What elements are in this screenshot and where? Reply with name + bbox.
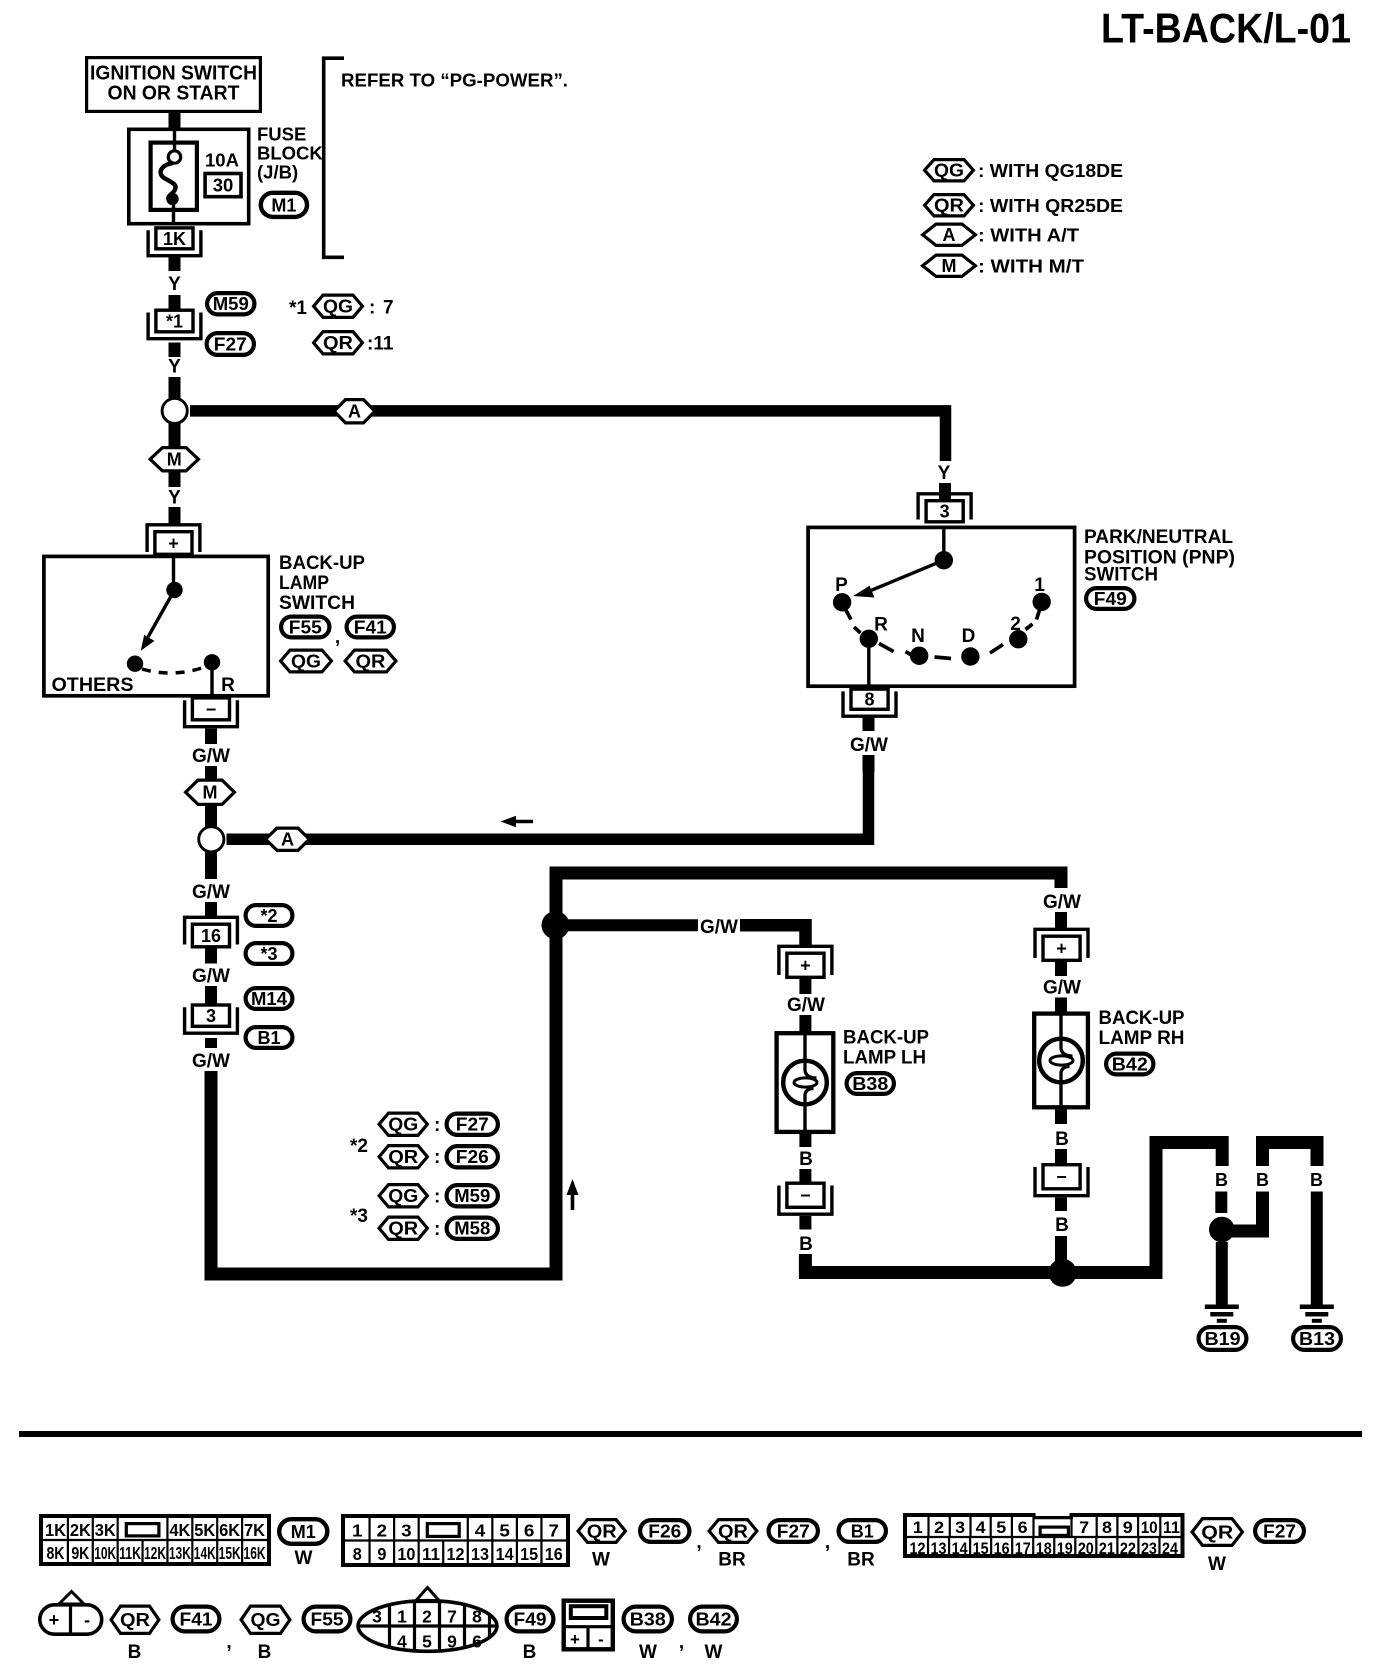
svg-text:QR: QR xyxy=(718,1522,748,1542)
connector F49 oval label xyxy=(1086,588,1134,609)
svg-text:F26: F26 xyxy=(456,1147,489,1167)
svg-text:BACK-UP: BACK-UP xyxy=(1099,1008,1185,1029)
svg-text:*2: *2 xyxy=(350,1136,368,1157)
wire label Y xyxy=(168,274,181,295)
wire stub below switch minus, label G/W xyxy=(205,729,217,745)
connector code A hexagon on return wire xyxy=(266,828,310,850)
svg-text:7K: 7K xyxy=(244,1520,265,1540)
svg-text:F55: F55 xyxy=(311,1610,344,1630)
svg-text:QR: QR xyxy=(323,333,353,353)
svg-text:: WITH QR25DE: : WITH QR25DE xyxy=(978,195,1123,216)
wire stub, label B, to bottom bus LH xyxy=(799,1216,813,1255)
wire label G/W below pin 8 xyxy=(850,717,888,756)
svg-text:8: 8 xyxy=(1102,1518,1112,1537)
connector pin 8 of PNP switch xyxy=(843,689,896,716)
svg-text:G/W: G/W xyxy=(1043,978,1081,999)
wire ignition to fuse block xyxy=(169,113,181,128)
footer F49 oval label, color B xyxy=(507,1607,554,1663)
svg-text:30: 30 xyxy=(213,175,234,196)
ground wire segment B19 branch xyxy=(1215,1170,1228,1213)
connector M59 oval xyxy=(207,293,254,314)
QG hexagon under F55 xyxy=(281,650,332,672)
svg-text:,: , xyxy=(335,627,340,648)
wire stub to M hexagon xyxy=(205,766,217,779)
svg-text:3: 3 xyxy=(955,1518,965,1537)
svg-text:3: 3 xyxy=(206,1006,216,1026)
svg-text:*1: *1 xyxy=(289,298,307,319)
svg-text:REFER TO “PG-POWER”.: REFER TO “PG-POWER”. xyxy=(341,70,568,91)
svg-text:W: W xyxy=(705,1642,723,1663)
svg-text::: : xyxy=(434,1219,440,1240)
svg-text:*3: *3 xyxy=(350,1206,368,1227)
svg-text:W: W xyxy=(1208,1554,1226,1575)
svg-text:7: 7 xyxy=(1079,1518,1089,1537)
wire label G/W left column xyxy=(192,882,230,903)
svg-text:: WITH M/T: : WITH M/T xyxy=(978,256,1085,277)
svg-text:+: + xyxy=(1056,939,1067,959)
footer connector F49 oval grid xyxy=(358,1588,497,1652)
back-up lamp RH bulb B42 xyxy=(1034,1014,1088,1108)
svg-text:B: B xyxy=(523,1642,537,1663)
PNP position labels P R N D 2 1 xyxy=(835,575,1045,647)
footer QR hexagon 2, color BR xyxy=(709,1520,757,1571)
fuse 10A 30 xyxy=(151,129,197,225)
connector pin 1K xyxy=(148,228,201,256)
wire label G/W xyxy=(192,746,230,767)
connector pin - of back-up lamp switch xyxy=(185,698,238,727)
connector pin - below lamp LH xyxy=(779,1183,832,1214)
svg-text:13: 13 xyxy=(471,1544,489,1564)
svg-text:−: − xyxy=(800,1186,811,1206)
footer F26 oval xyxy=(640,1520,702,1553)
svg-text:16: 16 xyxy=(994,1539,1010,1558)
svg-text:1: 1 xyxy=(352,1521,363,1541)
svg-text:2K: 2K xyxy=(70,1520,91,1540)
footer B1 oval, color BR xyxy=(839,1520,886,1570)
wire A/T branch to PNP pin 3 xyxy=(190,411,946,461)
svg-text:G/W: G/W xyxy=(1043,892,1081,913)
footer F27 oval xyxy=(769,1520,831,1553)
svg-text:G/W: G/W xyxy=(850,735,888,756)
footer B38 oval, color W xyxy=(624,1607,685,1663)
back-up lamp LH bulb B38 xyxy=(777,1033,834,1132)
svg-text:18: 18 xyxy=(1036,1539,1052,1558)
svg-text:19: 19 xyxy=(1057,1539,1073,1558)
svg-text:3: 3 xyxy=(372,1607,382,1627)
svg-text:LT-BACK/L-01: LT-BACK/L-01 xyxy=(1101,4,1351,51)
junction splice node top xyxy=(162,398,187,423)
svg-text:24: 24 xyxy=(1162,1539,1178,1558)
svg-text:-: - xyxy=(598,1630,604,1649)
svg-text:14: 14 xyxy=(496,1544,514,1564)
svg-text:,: , xyxy=(825,1532,830,1553)
svg-text:Y: Y xyxy=(168,274,181,295)
svg-text:F27: F27 xyxy=(1263,1522,1296,1542)
svg-text:13K: 13K xyxy=(169,1543,191,1563)
svg-text:B13: B13 xyxy=(1299,1329,1335,1349)
svg-text:QG: QG xyxy=(291,652,321,672)
park/neutral position switch box F49 xyxy=(808,527,1075,686)
svg-text:QR: QR xyxy=(934,196,964,216)
legend M: WITH M/T xyxy=(923,255,1085,276)
svg-text:B: B xyxy=(1256,1170,1269,1190)
svg-text:21: 21 xyxy=(1099,1539,1115,1558)
svg-text:FUSE: FUSE xyxy=(257,124,306,145)
svg-text:6: 6 xyxy=(524,1521,535,1541)
svg-text:4: 4 xyxy=(976,1518,987,1537)
note *2 QG:F27 QR:F26 xyxy=(350,1113,498,1168)
svg-text:9: 9 xyxy=(377,1544,386,1564)
svg-text:A: A xyxy=(943,225,956,245)
svg-text:5: 5 xyxy=(996,1518,1006,1537)
svg-text:15K: 15K xyxy=(219,1543,241,1563)
svg-text:QR: QR xyxy=(1201,1523,1233,1543)
svg-text:2: 2 xyxy=(1010,614,1021,635)
svg-text:12: 12 xyxy=(910,1539,926,1558)
svg-text:16K: 16K xyxy=(244,1543,266,1563)
svg-text:Y: Y xyxy=(168,357,181,378)
legend QR: WITH QR25DE xyxy=(925,195,1123,216)
direction arrow up on riser xyxy=(567,1179,579,1210)
svg-text:G/W: G/W xyxy=(787,995,825,1016)
footer F41 oval xyxy=(173,1607,232,1653)
fuse rating 10A xyxy=(205,150,239,171)
svg-text:11: 11 xyxy=(1163,1518,1180,1537)
wire branch to back-up lamp LH, label G/W xyxy=(560,917,806,946)
top link of second ground loop xyxy=(1263,1143,1318,1167)
wire label G/W above lamp RH xyxy=(1043,892,1081,930)
svg-text:3: 3 xyxy=(401,1521,412,1541)
svg-text:8: 8 xyxy=(472,1607,482,1627)
connector pin + of back-up lamp switch xyxy=(147,525,200,555)
title LT-BACK/L-01 xyxy=(1101,4,1351,51)
svg-text:BLOCK: BLOCK xyxy=(257,143,323,164)
svg-text:+: + xyxy=(49,1610,60,1630)
connector pin 3 of PNP switch xyxy=(918,494,971,522)
svg-text:4K: 4K xyxy=(169,1520,190,1540)
label R contact xyxy=(221,675,235,696)
svg-text:B: B xyxy=(1215,1170,1228,1190)
svg-text:IGNITION SWITCH: IGNITION SWITCH xyxy=(90,63,257,85)
svg-text:9K: 9K xyxy=(71,1543,89,1563)
svg-text:4: 4 xyxy=(475,1521,486,1541)
QR hexagon under F41 xyxy=(345,650,396,672)
label FUSE BLOCK (J/B) xyxy=(257,124,323,183)
wire stub below G/W pin 8 xyxy=(863,755,875,772)
svg-text:A: A xyxy=(281,830,294,850)
svg-text:1: 1 xyxy=(397,1607,407,1627)
svg-text:8: 8 xyxy=(864,690,874,710)
svg-text:SWITCH: SWITCH xyxy=(1084,565,1158,586)
power source IGNITION SWITCH ON OR START xyxy=(87,58,261,112)
svg-text:F26: F26 xyxy=(648,1522,681,1542)
svg-text:+: + xyxy=(800,956,811,976)
svg-text::: : xyxy=(434,1115,440,1136)
svg-text:R: R xyxy=(874,615,888,636)
wire A/T return from PNP pin 8 to junction xyxy=(227,768,869,839)
svg-text:QR: QR xyxy=(356,652,386,672)
svg-text:B1: B1 xyxy=(851,1522,874,1542)
svg-text:16: 16 xyxy=(201,926,221,946)
svg-text:B38: B38 xyxy=(630,1610,666,1630)
wire stub below +, label G/W RH xyxy=(1043,962,1081,1012)
svg-text:10: 10 xyxy=(1141,1518,1158,1537)
svg-text:22: 22 xyxy=(1120,1539,1136,1558)
ground bus wire bottom right xyxy=(805,1143,1222,1273)
svg-text:D: D xyxy=(962,626,976,647)
svg-text:SWITCH: SWITCH xyxy=(279,593,355,614)
svg-text:3: 3 xyxy=(940,502,950,522)
svg-text:(J/B): (J/B) xyxy=(257,162,298,183)
connector F41 oval xyxy=(335,617,394,648)
wire stub below +, label G/W xyxy=(787,979,825,1032)
connector pin - below lamp RH xyxy=(1035,1165,1088,1196)
svg-text:QG: QG xyxy=(251,1610,281,1630)
connector *3 oval xyxy=(246,943,293,964)
wire stub below *1, label Y xyxy=(169,343,181,358)
wire stub above *1 xyxy=(169,295,181,309)
svg-text:B: B xyxy=(1310,1170,1323,1190)
switch contact and arrow inside back-up lamp switch xyxy=(127,556,220,696)
junction dot lamp feed xyxy=(542,911,570,939)
wire stub below 3, label G/W xyxy=(192,1038,230,1072)
svg-text:F41: F41 xyxy=(354,618,387,638)
footer B42 oval, color W xyxy=(690,1607,737,1663)
bracket and note REFER TO PG-POWER xyxy=(324,58,568,257)
svg-text:B38: B38 xyxy=(852,1074,888,1094)
svg-text:6: 6 xyxy=(472,1632,482,1652)
connector code A hexagon on wire xyxy=(334,400,375,423)
wire stub, label B, down to junction dot xyxy=(1055,1198,1069,1269)
footer F27 oval 2 xyxy=(1255,1520,1304,1542)
PNP switch internal contacts xyxy=(833,527,1051,687)
svg-text::11: :11 xyxy=(367,334,394,355)
label PARK/NEUTRAL POSITION (PNP) SWITCH xyxy=(1084,527,1235,586)
legend QG: WITH QG18DE xyxy=(925,160,1123,181)
svg-text:+: + xyxy=(168,534,179,554)
svg-text:B: B xyxy=(1055,1129,1069,1150)
back-up lamp switch box xyxy=(44,556,268,695)
junction dot B19 branch xyxy=(1209,1217,1235,1243)
svg-text:QG: QG xyxy=(388,1186,418,1206)
svg-text:QG: QG xyxy=(323,297,353,317)
svg-text:M14: M14 xyxy=(251,989,287,1009)
svg-text:,: , xyxy=(226,1632,231,1653)
svg-text:11K: 11K xyxy=(119,1543,141,1563)
wire jog from dot to middle leg xyxy=(1228,1192,1263,1232)
svg-text:*1: *1 xyxy=(166,312,183,332)
svg-text:Y: Y xyxy=(938,463,951,484)
fuse block (J/B) box M1 xyxy=(129,129,249,223)
svg-text:7: 7 xyxy=(383,298,394,319)
connector M14 oval xyxy=(246,988,293,1009)
svg-text:ON OR START: ON OR START xyxy=(108,83,240,105)
connector B38 oval label xyxy=(847,1073,894,1094)
svg-text:16: 16 xyxy=(545,1544,563,1564)
svg-text:B: B xyxy=(258,1642,272,1663)
svg-text:*3: *3 xyxy=(260,944,277,964)
legend A: WITH A/T xyxy=(923,224,1080,245)
svg-text:12K: 12K xyxy=(144,1543,166,1563)
svg-text:F49: F49 xyxy=(1094,589,1127,609)
connector code M hexagon below junction xyxy=(150,424,198,488)
svg-text:G/W: G/W xyxy=(192,966,230,987)
wire stub below 16, label G/W xyxy=(192,949,230,988)
wire stub below lamp RH, label B xyxy=(1055,1110,1069,1165)
riser wire from bottom bus up to lamp feed xyxy=(556,873,1061,1281)
svg-text:LAMP: LAMP xyxy=(279,573,329,594)
connector code M hexagon lower xyxy=(186,780,235,804)
footer M1 oval, color W xyxy=(279,1519,327,1569)
wire stub to lower junction xyxy=(205,806,217,828)
svg-text:M: M xyxy=(167,450,182,470)
junction dot ground bus xyxy=(1049,1259,1077,1287)
svg-text:−: − xyxy=(1056,1167,1067,1187)
svg-text:8: 8 xyxy=(353,1544,362,1564)
svg-text:2: 2 xyxy=(934,1518,944,1537)
svg-text:F27: F27 xyxy=(214,335,247,355)
svg-text:2: 2 xyxy=(377,1521,388,1541)
connector pin + of back-up lamp LH xyxy=(779,946,832,977)
svg-text:17: 17 xyxy=(1015,1539,1031,1558)
svg-text:B1: B1 xyxy=(257,1028,280,1048)
svg-text:N: N xyxy=(911,626,925,647)
svg-text:BACK-UP: BACK-UP xyxy=(843,1028,929,1049)
svg-text:F27: F27 xyxy=(456,1115,489,1135)
svg-text:14K: 14K xyxy=(194,1543,216,1563)
svg-text:,: , xyxy=(679,1632,684,1653)
svg-text:,: , xyxy=(696,1532,701,1553)
label BACK-UP LAMP SWITCH xyxy=(279,553,365,614)
svg-text:QR: QR xyxy=(388,1147,418,1167)
svg-text:B42: B42 xyxy=(696,1610,732,1630)
svg-text:6K: 6K xyxy=(219,1520,240,1540)
svg-text:M59: M59 xyxy=(454,1186,490,1206)
wire stub below lamp LH, label B xyxy=(799,1134,813,1182)
svg-text:8K: 8K xyxy=(46,1543,64,1563)
svg-text:9: 9 xyxy=(447,1632,457,1652)
connector pin 16 xyxy=(185,917,238,947)
svg-text:: WITH A/T: : WITH A/T xyxy=(978,225,1080,246)
svg-text:F55: F55 xyxy=(289,618,322,638)
connector F55 oval xyxy=(281,617,329,638)
wire stub to connector 3 xyxy=(205,986,217,1004)
middle leg wire label B xyxy=(1256,1170,1269,1190)
svg-text:W: W xyxy=(592,1550,610,1571)
connector pin 3 left column xyxy=(185,1005,238,1033)
connector F27 oval xyxy=(207,333,254,355)
svg-text:20: 20 xyxy=(1078,1539,1094,1558)
wire label Y xyxy=(168,357,181,378)
connector M1 oval xyxy=(261,193,307,217)
svg-text:G/W: G/W xyxy=(192,1051,230,1072)
svg-text:10: 10 xyxy=(397,1544,415,1564)
svg-text:12: 12 xyxy=(447,1544,465,1564)
svg-text:M: M xyxy=(942,256,957,276)
svg-text::: : xyxy=(434,1187,440,1208)
svg-text::: : xyxy=(369,298,375,319)
wire stub below junction, label G/W xyxy=(205,852,217,879)
svg-text:1: 1 xyxy=(1034,575,1045,596)
svg-text:1K: 1K xyxy=(163,229,186,249)
svg-text:10K: 10K xyxy=(94,1543,116,1563)
svg-text:-: - xyxy=(84,1610,90,1630)
long wire left column down to bottom bus xyxy=(211,1071,556,1274)
footer connector grid F26/F27 (1-16) xyxy=(341,1514,570,1567)
connector B42 oval label xyxy=(1106,1054,1153,1075)
svg-text:BR: BR xyxy=(847,1550,875,1571)
svg-text:QR: QR xyxy=(388,1219,418,1239)
svg-text:QG: QG xyxy=(934,161,964,181)
wire label Y above back-up lamp switch xyxy=(168,488,181,509)
svg-text:M1: M1 xyxy=(271,195,296,215)
svg-text:6: 6 xyxy=(1018,1518,1028,1537)
svg-text:*2: *2 xyxy=(260,906,277,926)
wire stub to + connector xyxy=(169,507,181,525)
wire stub to connector 16 xyxy=(205,902,217,918)
svg-text:+: + xyxy=(570,1630,580,1649)
connector *2 oval xyxy=(246,905,293,926)
svg-text:5: 5 xyxy=(422,1632,432,1652)
svg-text:B: B xyxy=(799,1234,813,1255)
svg-text::: : xyxy=(434,1147,440,1168)
note *1 QG:7 QR:11 xyxy=(289,295,394,354)
junction splice node lower xyxy=(199,827,224,852)
wire from dot down to ground B19 xyxy=(1216,1242,1228,1306)
svg-text:LAMP RH: LAMP RH xyxy=(1099,1028,1185,1049)
svg-text:B: B xyxy=(128,1642,142,1663)
svg-text:BR: BR xyxy=(718,1550,746,1571)
svg-text:M1: M1 xyxy=(291,1522,316,1542)
svg-text:QG: QG xyxy=(388,1115,418,1135)
svg-text:−: − xyxy=(206,699,217,719)
footer F55 oval xyxy=(304,1607,351,1632)
connector pin + of back-up lamp RH xyxy=(1035,929,1088,960)
fuse number 30 box xyxy=(205,174,241,197)
footer separator rule xyxy=(19,1431,1362,1437)
ground symbol B19 xyxy=(1199,1307,1247,1350)
footer QG hexagon, color B xyxy=(241,1606,290,1663)
wire stub above junction xyxy=(169,377,181,398)
footer QR hexagon, color W xyxy=(578,1520,625,1571)
svg-text:15: 15 xyxy=(520,1544,538,1564)
svg-text:4: 4 xyxy=(397,1632,407,1652)
svg-text:7: 7 xyxy=(447,1607,457,1627)
svg-text:W: W xyxy=(639,1642,657,1663)
right leg wire, label B, down to ground B13 xyxy=(1310,1170,1323,1306)
footer connector grid M1 (1K-16K) xyxy=(39,1514,271,1566)
wire label Y at PNP pin 3 xyxy=(938,463,951,484)
label OTHERS xyxy=(52,675,134,696)
svg-text:14: 14 xyxy=(952,1539,968,1558)
connector B1 oval xyxy=(246,1027,293,1048)
svg-text:: WITH QG18DE: : WITH QG18DE xyxy=(978,160,1123,181)
svg-text:F49: F49 xyxy=(514,1610,547,1630)
svg-text:3K: 3K xyxy=(95,1520,116,1540)
ground symbol B13 xyxy=(1293,1307,1341,1350)
footer battery style connector +/- xyxy=(40,1592,102,1636)
svg-text:OTHERS: OTHERS xyxy=(52,675,134,696)
svg-text:QR: QR xyxy=(587,1522,617,1542)
svg-text:G/W: G/W xyxy=(192,746,230,767)
svg-text:W: W xyxy=(295,1548,313,1569)
svg-text:R: R xyxy=(221,675,235,696)
wire stub above pin 3 xyxy=(939,483,951,500)
svg-text:F27: F27 xyxy=(777,1522,810,1542)
svg-text:1K: 1K xyxy=(45,1520,66,1540)
footer connector grid B1 (1-24) xyxy=(903,1513,1185,1558)
svg-text:5: 5 xyxy=(499,1521,510,1541)
